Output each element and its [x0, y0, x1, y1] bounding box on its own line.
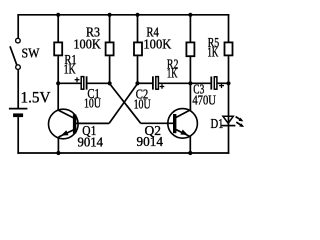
- transistor Q1 circle: [49, 109, 79, 139]
- svg-text:9014: 9014: [78, 134, 104, 149]
- wire node to C1 left plate: [58, 82, 81, 84]
- junction dot node A: [108, 81, 112, 85]
- Q2 base bar: [173, 114, 176, 133]
- LED light arrow 1: [236, 117, 242, 121]
- wire C2 to R2 node: [159, 82, 191, 84]
- Q1 collector diagonal: [58, 110, 73, 118]
- wire R2 node to C3 left plate: [190, 82, 210, 84]
- junction dot Q1 emitter at rail: [56, 151, 60, 155]
- LED D1 cathode bar: [221, 125, 235, 127]
- wire C3 to right frame node: [217, 82, 228, 84]
- LED light arrow 2: [236, 122, 242, 126]
- svg-text:9014: 9014: [137, 134, 164, 149]
- wire C1 to node A: [87, 82, 109, 84]
- switch SW terminal top: [16, 38, 21, 43]
- switch SW terminal bottom: [16, 65, 21, 70]
- wire top rail: [17, 14, 229, 16]
- resistor R3: [106, 42, 114, 55]
- junction dot node B: [135, 81, 139, 85]
- junction dot top rail R2: [188, 13, 192, 17]
- svg-text:1K: 1K: [207, 44, 218, 59]
- battery plate short thick: [13, 113, 23, 117]
- wire node B to C2 left plate: [138, 82, 153, 84]
- wire switch to battery: [17, 70, 19, 108]
- svg-text:1.5V: 1.5V: [21, 89, 51, 106]
- wire diagonal node B to Q1 base: [109, 84, 137, 124]
- resistor R1: [54, 42, 62, 55]
- svg-text:10U: 10U: [134, 96, 151, 111]
- junction dot R2 collector node: [188, 81, 192, 85]
- wire R3 from top rail: [109, 15, 111, 42]
- resistor R2: [186, 42, 194, 56]
- Q1 collector wire: [57, 83, 59, 110]
- junction dot top rail R3: [108, 13, 112, 17]
- LED arrow 2 head: [239, 123, 244, 127]
- wire R2 to collector node: [189, 57, 191, 83]
- junction dot top rail R1: [56, 13, 60, 17]
- svg-text:SW: SW: [22, 47, 41, 62]
- svg-text:470U: 470U: [192, 93, 216, 108]
- wire R4 from top rail: [137, 15, 139, 42]
- Q1 emitter wire: [57, 137, 59, 153]
- svg-text:1K: 1K: [167, 66, 178, 81]
- resistor R5: [225, 42, 233, 55]
- Q1 emitter arrowhead: [61, 130, 69, 135]
- C2 plus sign: [160, 86, 165, 88]
- Q2 collector diagonal: [176, 110, 191, 118]
- LED arrow 1 head: [239, 118, 244, 122]
- junction dot C3 right node: [226, 81, 230, 85]
- junction dot top rail R4: [135, 13, 139, 17]
- capacitor C3 positive plate (box): [214, 77, 217, 89]
- wire Q2 base lead: [141, 122, 174, 124]
- switch SW blade: [10, 46, 17, 64]
- Q2 emitter diagonal: [176, 130, 190, 137]
- capacitor C1 positive plate (box): [81, 77, 84, 90]
- transistor Q2 circle: [168, 109, 198, 139]
- wire R5 to C3 node: [228, 56, 230, 83]
- wire battery to bottom rail: [17, 117, 19, 154]
- C3 plus sign: [219, 85, 224, 87]
- svg-text:D1: D1: [211, 116, 224, 131]
- wire diagonal node A to Q2 base: [110, 84, 141, 124]
- wire R1 to C1 node: [57, 56, 59, 83]
- battery plate long: [9, 108, 28, 110]
- wire R2 from top rail: [189, 15, 191, 42]
- svg-text:10U: 10U: [84, 96, 101, 111]
- junction dot C1 left node: [56, 81, 60, 85]
- C1 plus sign: [75, 79, 80, 81]
- Q2 collector wire: [189, 83, 191, 110]
- junction dot Q2 emitter at rail: [188, 151, 192, 155]
- svg-text:1K: 1K: [64, 62, 76, 77]
- wire Q1 base lead: [76, 122, 109, 124]
- wire R1 from top rail: [57, 15, 59, 42]
- LED D1 triangle: [223, 116, 233, 123]
- wire R3 to node A: [109, 56, 111, 83]
- Q1 emitter diagonal: [59, 130, 74, 137]
- Q1 base bar: [73, 114, 76, 133]
- resistor R4: [134, 42, 142, 55]
- wire left frame to switch: [17, 14, 19, 38]
- wire R4 to node B: [137, 56, 139, 83]
- wire right frame upper: [228, 14, 230, 42]
- capacitor C2 positive plate (box): [156, 77, 159, 90]
- capacitor C2 negative plate: [152, 76, 154, 89]
- capacitor C3 negative plate: [210, 77, 212, 90]
- capacitor C1 negative plate: [86, 76, 88, 89]
- svg-text:100K: 100K: [73, 36, 101, 51]
- Q2 emitter arrowhead: [180, 130, 188, 136]
- Q2 emitter wire: [189, 136, 191, 153]
- svg-text:100K: 100K: [143, 36, 171, 51]
- wire bottom rail: [17, 152, 229, 154]
- wire C3 node through LED to bottom rail: [228, 83, 230, 154]
